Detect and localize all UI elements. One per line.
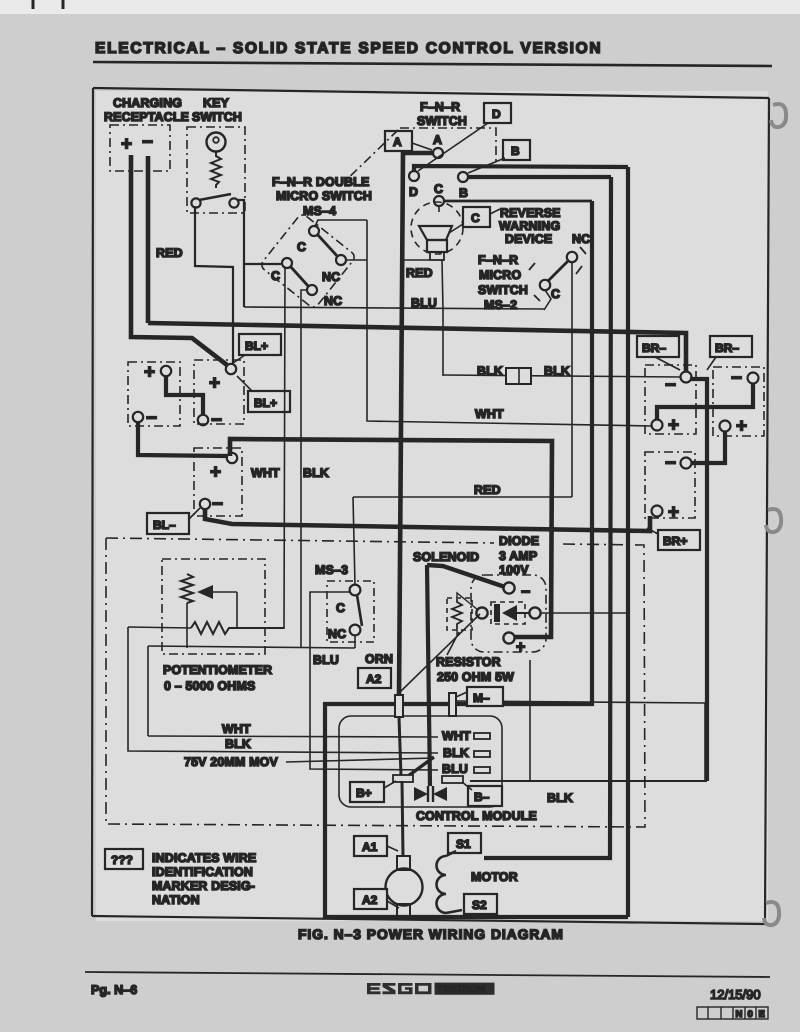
marker box B xyxy=(503,140,530,160)
control module outline xyxy=(339,716,502,807)
svg-text:SOLENOID: SOLENOID xyxy=(413,550,479,564)
M- marker box xyxy=(467,687,503,706)
top edge tick 2 xyxy=(62,0,65,9)
B- bus bar xyxy=(442,776,463,783)
svg-text:TEXTRON: TEXTRON xyxy=(437,985,485,996)
battery C + terminal xyxy=(227,453,237,463)
potentiometer box xyxy=(162,559,265,654)
battery B box xyxy=(194,360,244,424)
motor field coil xyxy=(437,856,447,913)
key switch terminal left xyxy=(191,198,200,207)
charging receptacle box xyxy=(110,125,170,171)
svg-text:C: C xyxy=(434,182,443,196)
A2 stub bar xyxy=(395,695,403,717)
solenoid terminal right xyxy=(529,607,540,618)
terminal C xyxy=(434,196,444,206)
potentiometer resistor lead down xyxy=(186,603,188,648)
wire MS-3 NC down xyxy=(354,636,356,648)
wire battery D+ to E- xyxy=(657,384,753,420)
wire WHT vertical xyxy=(147,646,149,736)
svg-text:E: E xyxy=(759,1009,765,1020)
svg-text:WHT: WHT xyxy=(251,466,280,480)
potentiometer resistor horizontal xyxy=(191,622,284,634)
A2 marker box lower xyxy=(354,889,387,909)
MS-2 terminal NC xyxy=(567,252,577,262)
B+ marker box xyxy=(350,782,384,802)
wire key right to MS-4 C1 xyxy=(244,263,281,265)
svg-text:NC: NC xyxy=(322,270,340,284)
solenoid coil resistor xyxy=(452,599,462,629)
svg-text:S2: S2 xyxy=(472,898,487,912)
S2 marker box xyxy=(464,894,497,914)
svg-text:???: ??? xyxy=(111,853,133,867)
svg-text:C: C xyxy=(471,211,480,225)
svg-text:WHT: WHT xyxy=(222,722,251,736)
SECTION-SOLENOID xyxy=(436,575,546,716)
svg-text:−: − xyxy=(665,375,676,396)
battery D - terminal xyxy=(681,372,692,383)
diagram border top xyxy=(93,88,769,98)
svg-text:DIODE: DIODE xyxy=(499,534,539,548)
svg-text:A2: A2 xyxy=(362,893,378,907)
svg-text:FIG. N–3 POWER WIRING DIAGRAM: FIG. N–3 POWER WIRING DIAGRAM xyxy=(298,927,564,942)
svg-text:−: − xyxy=(521,584,530,601)
svg-text:C: C xyxy=(551,287,560,301)
svg-text:B+: B+ xyxy=(356,786,372,800)
wire solenoid minus branch down to diode pair xyxy=(427,565,430,786)
wire WHT to module xyxy=(148,736,438,737)
svg-text:−: − xyxy=(211,410,222,431)
solenoid coil leads xyxy=(457,593,478,610)
diode bar xyxy=(494,604,500,622)
thick bus to solenoid plus xyxy=(230,439,552,637)
wire solenoid to B- line xyxy=(529,660,531,781)
svg-text:REVERSE: REVERSE xyxy=(500,206,561,220)
main negative bus from receptacle to BR- battery xyxy=(148,323,686,372)
wire key left terminal to BL+ battery xyxy=(195,206,233,364)
BR- marker box right xyxy=(710,336,752,357)
punch curl middle xyxy=(766,509,781,532)
wire D-bus down xyxy=(626,167,630,917)
reverse warning device speaker xyxy=(411,202,463,254)
BR+ marker box xyxy=(658,530,700,550)
svg-text:−: − xyxy=(212,494,223,515)
svg-text:WHT: WHT xyxy=(475,407,504,421)
svg-text:0 – 5000 OHMS: 0 – 5000 OHMS xyxy=(164,679,255,693)
svg-text:KEY: KEY xyxy=(203,96,230,110)
svg-text:BL+: BL+ xyxy=(245,339,268,353)
svg-text:−: − xyxy=(146,408,157,429)
svg-text:A: A xyxy=(393,135,402,149)
solenoid coil box xyxy=(447,598,472,630)
wire BR- down to B- line xyxy=(690,379,707,781)
wire charging - down to bus xyxy=(146,156,151,323)
MS-4 terminal C2 xyxy=(309,226,319,236)
key symbol shaft xyxy=(211,151,221,188)
SECTION-FNR xyxy=(325,100,681,917)
svg-text:250 OHM 5W: 250 OHM 5W xyxy=(437,670,514,684)
svg-text:BLK: BLK xyxy=(443,746,469,760)
BL- marker box xyxy=(147,513,189,534)
svg-text:−: − xyxy=(142,132,153,153)
wire speaker to BLU xyxy=(442,260,443,310)
svg-text:+: + xyxy=(516,639,525,656)
punch curl bottom xyxy=(764,902,779,925)
svg-text:F–N–R DOUBLE: F–N–R DOUBLE xyxy=(272,175,369,189)
svg-text:NC: NC xyxy=(328,627,346,641)
wire MS-4 NC right to column xyxy=(347,259,367,261)
wire B-bus down xyxy=(484,177,611,858)
svg-text:+: + xyxy=(209,373,220,394)
wire ORN diagonal solenoid to A2 stub xyxy=(400,614,480,692)
diagram border right xyxy=(765,98,769,924)
wire MS-3 C up to RED xyxy=(353,497,355,585)
marker box C xyxy=(463,207,490,227)
svg-text:WARNING: WARNING xyxy=(499,219,560,233)
svg-text:M–: M– xyxy=(473,691,490,705)
svg-text:−: − xyxy=(731,368,742,389)
svg-text:−: − xyxy=(665,453,676,474)
svg-text:F–N–R: F–N–R xyxy=(420,100,460,114)
battery D box xyxy=(645,365,696,434)
wire BLU branch down to module xyxy=(310,592,438,770)
BLK column wire from MS-4 NC xyxy=(301,290,308,648)
key switch terminal right xyxy=(229,198,238,207)
svg-text:+: + xyxy=(144,362,155,383)
key switch box xyxy=(187,127,245,213)
svg-text:RED: RED xyxy=(406,266,433,280)
svg-text:S1: S1 xyxy=(456,837,471,851)
MS-4 terminal C1 xyxy=(282,258,292,268)
svg-text:+: + xyxy=(668,502,679,523)
potentiometer wiper wire xyxy=(236,592,238,628)
key switch lever xyxy=(199,194,231,200)
svg-text:NC: NC xyxy=(572,232,590,246)
svg-text:+: + xyxy=(736,416,747,437)
BLU stub bar xyxy=(474,767,490,773)
svg-text:BLK: BLK xyxy=(544,364,570,378)
motor top brush xyxy=(397,856,410,870)
F-N-R dash-dot outline xyxy=(400,128,496,166)
wire battery A+ to B- xyxy=(166,376,203,415)
svg-text:BLK: BLK xyxy=(303,466,329,480)
B- marker box xyxy=(468,786,502,806)
wire module to motor xyxy=(402,781,403,856)
wire solenoid right contact xyxy=(541,612,626,614)
wire D right to D-bus xyxy=(414,166,628,171)
MS-4 lever 2 xyxy=(317,234,338,257)
svg-text:BR+: BR+ xyxy=(663,534,687,548)
battery C - terminal xyxy=(200,499,210,509)
wire B right to B-bus xyxy=(468,175,611,179)
svg-text:NATION: NATION xyxy=(152,893,200,907)
MS-4 lever 1 xyxy=(290,266,309,287)
battery F box xyxy=(645,452,695,518)
wire charging + down xyxy=(131,155,227,365)
resistor leader xyxy=(447,632,459,655)
MS-3 lever xyxy=(357,595,362,626)
motor body xyxy=(386,869,423,906)
svg-text:C: C xyxy=(297,240,306,254)
svg-text:A2: A2 xyxy=(366,672,382,686)
potentiometer bottom wire xyxy=(128,627,191,628)
svg-text:BR–: BR– xyxy=(642,341,666,355)
SECTION-POT xyxy=(128,497,480,693)
MS-4 terminal NC right xyxy=(336,255,346,265)
svg-text:IDENTIFICATION: IDENTIFICATION xyxy=(152,865,253,879)
svg-text:BLU: BLU xyxy=(411,296,437,310)
potentiometer wiper arrow xyxy=(212,591,237,593)
battery E box xyxy=(713,367,764,436)
svg-text:BL–: BL– xyxy=(153,518,176,532)
terminal B xyxy=(458,172,468,182)
title underline xyxy=(93,62,772,66)
battery F + terminal xyxy=(652,506,663,517)
wire key right terminal down xyxy=(238,200,244,307)
svg-text:BLK: BLK xyxy=(225,737,251,751)
wire BLK fuse line xyxy=(443,375,681,377)
wire MS-2 NC down to RED line xyxy=(571,262,573,497)
svg-text:BR–: BR– xyxy=(715,341,739,355)
MS-4 terminal NC bottom xyxy=(307,285,317,295)
BR- marker box left xyxy=(637,336,679,357)
wire MS-2 C to BLU xyxy=(544,290,551,310)
M- stub bar xyxy=(449,693,456,716)
SECTION-BATTLEFT xyxy=(128,268,650,648)
motor bottom brush xyxy=(397,904,410,917)
potentiometer resistor vertical xyxy=(181,574,193,603)
SECTION-BATTRIGHT xyxy=(637,336,764,781)
??? note box xyxy=(105,849,143,869)
svg-text:ELECTRICAL – SOLID STATE SPEED: ELECTRICAL – SOLID STATE SPEED CONTROL V… xyxy=(95,40,602,57)
diode triangle xyxy=(502,605,517,621)
svg-text:SWITCH: SWITCH xyxy=(192,110,242,124)
wire WHT column down xyxy=(367,220,652,426)
SECTION-MODULE xyxy=(339,695,573,823)
svg-text:NC: NC xyxy=(324,294,342,308)
MS-2 lever xyxy=(548,260,569,281)
revision boxes xyxy=(697,1007,768,1019)
terminal D xyxy=(409,171,419,181)
control assembly dash-dot boundary xyxy=(106,538,494,543)
wire MS-4 C2 up to WHT column xyxy=(315,220,367,226)
wire BLU junction down to fuse xyxy=(442,310,444,376)
SECTION-HEADER xyxy=(33,0,772,66)
battery C box xyxy=(194,448,242,516)
battery E + terminal xyxy=(720,421,731,432)
wire to solenoid minus xyxy=(427,565,505,587)
SECTION-TOPLEFT xyxy=(104,96,652,426)
solenoid terminal left xyxy=(476,607,487,618)
RED line horizontal xyxy=(353,496,572,498)
svg-text:BLU: BLU xyxy=(313,653,339,667)
svg-text:A1: A1 xyxy=(362,840,378,854)
diagram border bottom xyxy=(92,916,765,924)
freewheel diode right-facing xyxy=(414,787,428,801)
B- to BR- wire xyxy=(470,780,707,782)
battery B - terminal xyxy=(198,415,208,425)
wire coil to S2 xyxy=(446,910,462,913)
svg-text:BLU: BLU xyxy=(442,762,468,776)
freewheel diode left-facing xyxy=(433,787,447,801)
wire A2 stub into module xyxy=(399,717,401,776)
wire battery E+ to F- xyxy=(692,432,725,463)
wire BLK to module xyxy=(128,627,438,753)
svg-text:MS–3: MS–3 xyxy=(315,563,348,577)
BL+ marker box upper xyxy=(239,334,281,355)
solenoid terminal bottom xyxy=(503,632,514,643)
svg-text:B–: B– xyxy=(474,790,490,804)
MS-3 terminal NC xyxy=(350,625,361,636)
MS-2 terminal C xyxy=(540,280,550,290)
BL+ marker box lower xyxy=(248,391,290,412)
svg-text:Pg. N–6: Pg. N–6 xyxy=(91,983,137,997)
wire C right to C-bus xyxy=(444,200,592,203)
svg-text:MS–2: MS–2 xyxy=(484,298,517,312)
solenoid terminal top xyxy=(503,582,514,593)
wire C-bus down xyxy=(325,201,628,917)
BLU wire key to MS-2 C xyxy=(244,307,544,309)
svg-text:C: C xyxy=(271,269,280,283)
svg-text:INDICATES WIRE: INDICATES WIRE xyxy=(152,851,256,865)
wire speaker to A-bus xyxy=(402,259,430,261)
svg-text:3 AMP: 3 AMP xyxy=(499,549,537,563)
svg-text:CHARGING: CHARGING xyxy=(113,96,182,110)
svg-text:DEVICE: DEVICE xyxy=(505,232,552,246)
svg-text:MOTOR: MOTOR xyxy=(471,870,518,884)
M- wire xyxy=(456,701,705,781)
battery B + terminal (BL+) xyxy=(226,364,236,374)
svg-text:B: B xyxy=(511,144,520,158)
A2 marker box xyxy=(358,668,391,688)
marker box D xyxy=(484,103,511,123)
diagram border left xyxy=(92,88,93,916)
EZGO logo xyxy=(367,983,495,996)
svg-text:POTENTIOMETER: POTENTIOMETER xyxy=(163,663,272,677)
WHT stub bar xyxy=(474,733,490,739)
wire C into speaker xyxy=(438,206,440,212)
battery A - terminal xyxy=(133,412,143,422)
wire A down (thick vertical bus) xyxy=(399,153,433,697)
svg-text:SWITCH: SWITCH xyxy=(417,114,467,128)
svg-text:+: + xyxy=(210,462,221,483)
svg-text:RECEPTACLE: RECEPTACLE xyxy=(104,110,189,124)
svg-text:75V 20MM MOV: 75V 20MM MOV xyxy=(184,755,279,769)
wire MOV leader xyxy=(286,758,434,762)
svg-text:MS–4: MS–4 xyxy=(303,204,336,218)
svg-text:RED: RED xyxy=(156,246,183,260)
top edge tick 1 xyxy=(32,0,35,9)
SECTION-MIDBUS xyxy=(106,323,707,827)
fuse marker box xyxy=(506,368,531,384)
svg-text:CONTROL MODULE: CONTROL MODULE xyxy=(416,809,537,823)
svg-text:N: N xyxy=(736,1009,743,1020)
svg-text:+: + xyxy=(121,134,132,155)
svg-text:C: C xyxy=(336,601,345,615)
footer rule xyxy=(85,972,770,977)
key symbol head xyxy=(207,133,226,152)
S1 marker box xyxy=(448,833,481,853)
svg-text:BL+: BL+ xyxy=(254,396,277,410)
svg-text:+: + xyxy=(668,415,679,436)
svg-text:12/15/90: 12/15/90 xyxy=(710,987,761,1002)
battery A box xyxy=(128,362,180,426)
wire battery C- to BR+ bus xyxy=(205,509,650,531)
svg-text:MICRO SWITCH: MICRO SWITCH xyxy=(276,189,372,203)
MOV component diagonal xyxy=(404,757,434,779)
svg-text:RESISTOR: RESISTOR xyxy=(436,655,501,669)
svg-text:RED: RED xyxy=(474,483,501,497)
svg-text:F–N–R: F–N–R xyxy=(478,253,518,267)
marker box A xyxy=(385,131,412,151)
wire coil to S1 xyxy=(446,851,456,856)
wire battery A- to C+ xyxy=(138,422,227,456)
B+ bus bar xyxy=(393,775,413,782)
battery D + terminal xyxy=(652,420,663,431)
svg-text:B: B xyxy=(459,186,468,200)
svg-text:BLK: BLK xyxy=(477,364,503,378)
MS-4 outline (rotated) xyxy=(259,213,356,310)
svg-text:SWITCH: SWITCH xyxy=(478,283,528,297)
solenoid box xyxy=(471,575,546,652)
WHT column wire from MS-4 C1 xyxy=(284,268,285,629)
diode box xyxy=(491,602,525,624)
svg-text:D: D xyxy=(409,185,418,199)
SECTION-FOOTER xyxy=(85,927,770,1020)
MS-3 box xyxy=(327,581,374,642)
svg-text:WHT: WHT xyxy=(442,729,471,743)
terminal A xyxy=(433,148,443,158)
A1 marker box xyxy=(354,836,387,856)
svg-text:MARKER DESIG-: MARKER DESIG- xyxy=(152,879,255,893)
svg-text:MICRO: MICRO xyxy=(479,268,521,282)
BLK stub bar xyxy=(474,751,490,757)
wire MS-3 NC line xyxy=(148,646,355,648)
svg-text:BLK: BLK xyxy=(547,791,573,805)
diode lead xyxy=(517,612,530,614)
MS-2 dashed arcs xyxy=(529,263,535,270)
svg-text:0: 0 xyxy=(748,1009,753,1020)
svg-text:D: D xyxy=(492,107,501,121)
punch curl top xyxy=(771,104,786,127)
svg-text:ORN: ORN xyxy=(365,652,393,666)
SECTION-BORDER xyxy=(92,88,786,925)
SECTION-MOTOR xyxy=(105,781,518,917)
MS-3 terminal C xyxy=(350,585,361,596)
svg-text:A: A xyxy=(433,133,442,147)
